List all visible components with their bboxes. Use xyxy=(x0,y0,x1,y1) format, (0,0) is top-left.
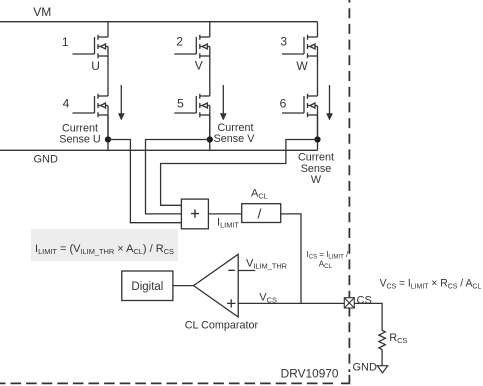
resistor RCS xyxy=(379,330,385,349)
svg-text:4: 4 xyxy=(63,96,70,110)
wire sense V to summer xyxy=(146,140,210,214)
divider block ACL xyxy=(242,204,281,223)
wire VCS to CS pin xyxy=(238,302,344,304)
node VCS equation label xyxy=(380,277,482,291)
svg-text:CS: CS xyxy=(357,295,372,307)
svg-text:GND: GND xyxy=(353,362,378,374)
svg-text:1: 1 xyxy=(62,35,69,49)
phase U rail wire xyxy=(107,22,109,151)
pin CS terminal xyxy=(344,298,354,308)
svg-text:V: V xyxy=(195,59,203,73)
GND rail xyxy=(0,149,318,151)
svg-text:5: 5 xyxy=(177,96,184,110)
ILIMIT equation grey box xyxy=(31,229,178,262)
junction dot sense W xyxy=(314,136,320,142)
chip boundary dashed border xyxy=(348,0,350,372)
svg-text:ICS = ILIMIT /: ICS = ILIMIT / xyxy=(307,250,349,261)
svg-text:3: 3 xyxy=(280,35,287,49)
plus input sign xyxy=(227,299,236,307)
svg-text:VCS: VCS xyxy=(259,292,277,305)
current arrow phase W xyxy=(327,85,333,120)
svg-text:RCS: RCS xyxy=(389,332,407,345)
svg-text:ACL: ACL xyxy=(319,259,333,270)
junction dot sense V xyxy=(207,136,213,142)
svg-text:GND: GND xyxy=(34,154,59,166)
svg-text:Current: Current xyxy=(217,122,253,134)
svg-text:DRV10970: DRV10970 xyxy=(281,369,339,381)
svg-text:Sense U: Sense U xyxy=(59,134,100,146)
ground symbol xyxy=(377,366,387,373)
svg-text:ACL: ACL xyxy=(251,188,268,201)
phase W rail wire xyxy=(317,22,319,151)
svg-text:VM: VM xyxy=(33,5,51,19)
svg-text:/: / xyxy=(258,206,262,222)
svg-text:Sense V: Sense V xyxy=(214,133,256,145)
svg-text:2: 2 xyxy=(176,35,183,49)
current arrow phase U xyxy=(118,85,124,120)
svg-text:VILIM_THR: VILIM_THR xyxy=(246,258,287,271)
svg-text:Current: Current xyxy=(62,122,98,134)
transistor M1 xyxy=(73,35,109,59)
wire sense U to summer xyxy=(108,140,181,223)
svg-text:CL Comparator: CL Comparator xyxy=(185,320,259,332)
wire summer to divider xyxy=(208,213,241,215)
VM rail xyxy=(0,21,318,23)
svg-text:6: 6 xyxy=(280,96,287,110)
transistor M3 xyxy=(282,35,318,59)
wire sense W to summer xyxy=(161,140,318,206)
svg-text:W: W xyxy=(311,174,322,186)
junction dot sense U xyxy=(105,136,111,142)
summing block xyxy=(181,199,208,229)
op-amp CL Comparator xyxy=(194,254,239,317)
minus input sign xyxy=(228,269,235,271)
transistor M5 xyxy=(174,94,210,118)
wire VILIM_THR stub xyxy=(238,270,255,272)
phase V rail wire xyxy=(209,22,211,151)
transistor M4 xyxy=(73,94,109,118)
svg-text:VCS = ILIMIT × RCS / ACL: VCS = ILIMIT × RCS / ACL xyxy=(380,277,482,291)
current arrow phase V xyxy=(220,85,226,120)
wire comparator output to Digital xyxy=(173,285,194,287)
Digital block xyxy=(122,271,173,301)
wire divider to VCS node xyxy=(281,214,301,304)
transistor M6 xyxy=(282,94,318,118)
transistor M2 xyxy=(174,35,210,59)
svg-text:Digital: Digital xyxy=(131,281,163,293)
wire CS pin to RCS xyxy=(354,303,382,330)
wire RCS to GND xyxy=(381,350,383,366)
svg-text:ILIMIT: ILIMIT xyxy=(217,217,239,230)
svg-text:W: W xyxy=(296,59,308,73)
svg-text:U: U xyxy=(91,59,100,73)
